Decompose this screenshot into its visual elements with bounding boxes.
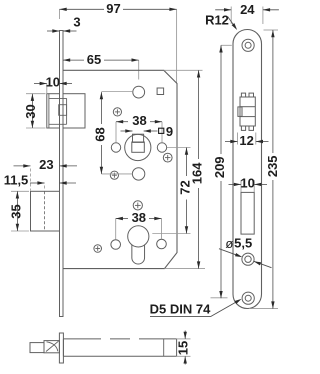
handle fixing hole bottom (132, 168, 144, 180)
svg-text:15: 15 (175, 341, 190, 355)
dimension 164 case height (164, 70, 205, 268)
dimension 38 cylinder holes (116, 210, 162, 240)
cylinder fixing hole right (157, 239, 167, 249)
dimension 24 faceplate width (215, 2, 279, 24)
svg-text:209: 209 (212, 156, 227, 178)
dimension 10 latch protrusion (34, 75, 72, 93)
hole diameter 5,5 with leader (219, 236, 272, 268)
hole right of follower (157, 143, 166, 152)
dimension 23 deadbolt thrown (14, 157, 78, 190)
svg-text:10: 10 (240, 176, 254, 191)
svg-text:65: 65 (87, 52, 101, 67)
dimension 3 faceplate thickness (47, 14, 81, 32)
dimension 11,5 deadbolt retracted (4, 173, 76, 191)
svg-text:38: 38 (132, 210, 146, 225)
dimension 12 latch opening (225, 133, 269, 148)
svg-text:10: 10 (46, 75, 60, 90)
screw lower left of follower (110, 171, 118, 179)
svg-text:11,5: 11,5 (4, 173, 29, 188)
svg-text:38: 38 (132, 113, 146, 128)
latch bolt bottom view (30, 341, 59, 353)
faceplate flange bottom view (59, 333, 63, 363)
svg-text:12: 12 (239, 133, 253, 148)
callout R12 faceplate radius (205, 13, 237, 30)
screw above cylinder (133, 201, 142, 210)
dimension 65 backset (63, 52, 139, 80)
dimension 235 faceplate length (249, 30, 280, 309)
latch opening in faceplate (238, 93, 255, 130)
svg-text:164: 164 (190, 162, 205, 184)
faceplate top screw hole (242, 39, 254, 51)
svg-text:5,5: 5,5 (234, 236, 252, 251)
faceplate front view outline (233, 30, 262, 309)
svg-text:3: 3 (73, 14, 80, 29)
square hole top right (157, 88, 164, 95)
dimension 30 latch height (23, 94, 45, 128)
dimension 72 follower to cylinder (152, 148, 192, 234)
dimension 209 screw spacing (211, 45, 232, 298)
lock case bottom view (63, 339, 176, 356)
screw upper left (113, 108, 121, 116)
dimension 38 follower holes (116, 113, 162, 142)
faceplate side view (3mm edge) (60, 31, 64, 317)
svg-text:30: 30 (23, 104, 38, 118)
svg-text:23: 23 (39, 157, 53, 172)
cylinder fixing hole left (111, 240, 121, 250)
svg-text:D5 DIN 74: D5 DIN 74 (150, 302, 211, 317)
deadbolt side view (31, 191, 60, 231)
faceplate bottom screw hole (242, 292, 254, 304)
note D5 DIN 74 countersink (150, 299, 242, 317)
hole left of follower (111, 143, 120, 152)
lock case outline (63, 70, 177, 268)
screw bottom left (94, 245, 102, 253)
handle fixing hole top (133, 86, 145, 98)
svg-text:235: 235 (265, 155, 280, 177)
callout square 9 spindle (121, 124, 174, 139)
svg-text:R12: R12 (205, 13, 229, 28)
euro profile cylinder hole (128, 226, 149, 264)
dimension 68 handle holes (92, 92, 132, 174)
svg-text:ø: ø (225, 236, 233, 251)
dimension 97 overall depth (60, 1, 177, 83)
svg-text:24: 24 (240, 2, 255, 17)
follower with square spindle hole (125, 134, 151, 160)
svg-text:97: 97 (106, 1, 120, 16)
dimension 10 deadbolt opening (229, 176, 268, 193)
svg-text:9: 9 (166, 124, 173, 139)
dimension 35 deadbolt height (8, 191, 29, 231)
svg-text:35: 35 (8, 204, 23, 218)
screw right of follower (163, 153, 172, 162)
latch bolt side view (47, 94, 85, 128)
svg-text:68: 68 (92, 127, 107, 141)
deadbolt opening in faceplate (241, 192, 254, 234)
dimension 15 case thickness (175, 331, 190, 365)
